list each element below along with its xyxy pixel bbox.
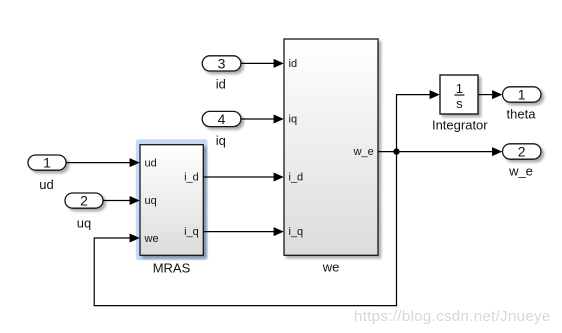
inport 3 id bbox=[202, 56, 241, 72]
inport 4 name label iq bbox=[216, 133, 226, 148]
svg-text:id: id bbox=[289, 58, 298, 70]
svg-text:1: 1 bbox=[43, 155, 51, 171]
inport 2 uq bbox=[65, 193, 103, 209]
inport 1 name label ud bbox=[39, 177, 53, 192]
svg-text:3: 3 bbox=[218, 56, 226, 72]
svg-text:2: 2 bbox=[80, 193, 88, 209]
svg-text:w_e: w_e bbox=[353, 146, 374, 158]
svg-text:theta: theta bbox=[507, 106, 537, 121]
svg-text:s: s bbox=[456, 96, 463, 111]
block we pin label i_d bbox=[289, 172, 304, 184]
outport 1 theta bbox=[503, 87, 542, 103]
inport 2 name label uq bbox=[77, 216, 91, 231]
svg-text:ud: ud bbox=[145, 157, 157, 169]
block MRAS pin label i_q bbox=[184, 226, 199, 238]
wire Integrator to outport1 bbox=[478, 90, 502, 99]
wire inport2 to MRAS uq bbox=[103, 196, 140, 205]
junction dot on w_e net bbox=[393, 148, 399, 154]
block Integrator bbox=[440, 75, 478, 114]
svg-text:Integrator: Integrator bbox=[432, 117, 488, 132]
block MRAS pin label uq bbox=[145, 195, 157, 207]
svg-text:we: we bbox=[322, 260, 340, 275]
wire branch w_e up to Integrator bbox=[397, 90, 440, 152]
block we pin label w_e bbox=[353, 146, 374, 158]
svg-text:id: id bbox=[216, 76, 226, 91]
wire inport3 to we id bbox=[241, 59, 284, 68]
svg-text:i_d: i_d bbox=[184, 171, 199, 183]
wire we w_e to outport2 bbox=[378, 147, 502, 156]
block MRAS selection highlight bbox=[136, 139, 208, 260]
wire inport1 to MRAS ud bbox=[66, 158, 140, 167]
svg-text:i_q: i_q bbox=[184, 226, 199, 238]
outport 1 name label theta bbox=[507, 106, 537, 121]
block we bbox=[284, 39, 378, 255]
block MRAS bbox=[140, 145, 203, 256]
svg-text:1: 1 bbox=[456, 81, 463, 96]
svg-text:uq: uq bbox=[77, 216, 91, 231]
svg-text:iq: iq bbox=[289, 114, 298, 126]
wire MRAS i_q to we i_q bbox=[203, 227, 283, 236]
svg-text:1: 1 bbox=[518, 87, 526, 103]
inport 3 name label id bbox=[216, 76, 226, 91]
svg-text:2: 2 bbox=[518, 144, 526, 160]
svg-text:i_d: i_d bbox=[289, 172, 304, 184]
wire MRAS i_d to we i_d bbox=[203, 173, 283, 182]
svg-text:MRAS: MRAS bbox=[153, 261, 191, 276]
inport 4 iq bbox=[202, 111, 241, 127]
block we pin label i_q bbox=[289, 226, 304, 238]
watermark bbox=[354, 308, 551, 325]
wire feedback w_e down and around to MRAS we bbox=[94, 152, 396, 306]
inport 1 ud bbox=[28, 155, 66, 171]
outport 2 w_e bbox=[503, 144, 542, 160]
block we pin label id bbox=[289, 58, 298, 70]
svg-text:uq: uq bbox=[145, 195, 157, 207]
block we name label bbox=[322, 260, 340, 275]
svg-text:w_e: w_e bbox=[508, 164, 533, 179]
svg-text:4: 4 bbox=[218, 111, 226, 127]
outport 2 name label w_e bbox=[508, 164, 533, 179]
block MRAS name label bbox=[153, 261, 191, 276]
svg-text:https://blog.csdn.net/Jnueye: https://blog.csdn.net/Jnueye bbox=[354, 308, 551, 325]
wire inport4 to we iq bbox=[241, 115, 284, 124]
block MRAS pin label ud bbox=[145, 157, 157, 169]
block MRAS pin label i_d bbox=[184, 171, 199, 183]
svg-text:we: we bbox=[144, 233, 159, 245]
svg-text:i_q: i_q bbox=[289, 226, 304, 238]
svg-text:ud: ud bbox=[39, 177, 53, 192]
block we pin label iq bbox=[289, 114, 298, 126]
block MRAS pin label we bbox=[144, 233, 159, 245]
block Integrator value 1/s bbox=[454, 81, 464, 111]
block Integrator name label bbox=[432, 117, 488, 132]
svg-text:iq: iq bbox=[216, 133, 226, 148]
